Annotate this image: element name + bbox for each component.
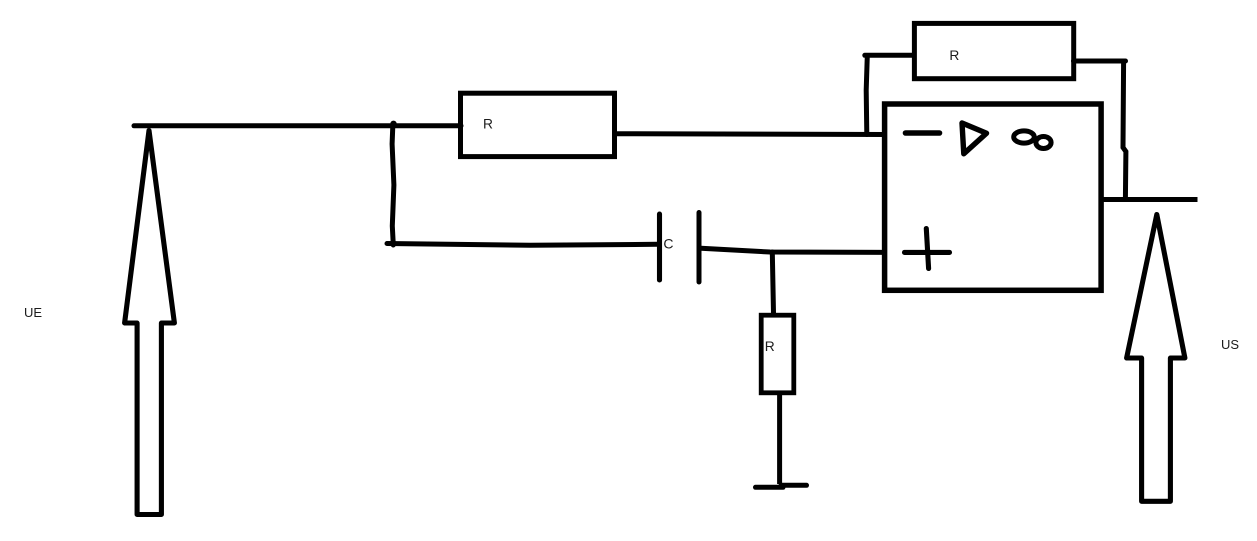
UE label	[24, 305, 42, 320]
wire from R1 to op-amp inverting input	[615, 131, 886, 137]
op-amp non-inverting input symbol (plus)	[905, 229, 950, 269]
wire vertical from capacitor output node down to R3	[772, 252, 773, 313]
node A junction of input wire and capacitor branch	[390, 121, 396, 127]
wire output from op-amp to the right	[1101, 197, 1198, 202]
UE source arrow (input voltage, pointing up)	[125, 131, 175, 515]
infinity symbol (ideal op-amp)	[1014, 131, 1051, 149]
wire feedback left vertical (inverting node up)	[866, 56, 867, 135]
svg-text:R: R	[483, 117, 493, 132]
wire input top horizontal from UE to R1	[134, 123, 461, 128]
svg-text:R: R	[765, 339, 775, 354]
op-amp triangle symbol	[962, 123, 987, 154]
resistor R3 (to ground)	[761, 315, 794, 393]
svg-text:C: C	[663, 236, 673, 252]
wire from C right plate to op-amp non-inverting input	[701, 248, 886, 252]
wire feedback top-right horizontal from R2	[1074, 59, 1126, 64]
svg-text:US: US	[1221, 337, 1239, 352]
US source arrow (output voltage, pointing up)	[1127, 215, 1185, 502]
wire junction vertical down to capacitor branch	[392, 126, 394, 245]
resistor R2 (feedback resistor)	[914, 23, 1073, 78]
wire feedback right vertical down to output node	[1123, 61, 1126, 200]
US label	[1221, 337, 1239, 352]
svg-text:R: R	[949, 48, 959, 63]
ground	[756, 485, 807, 487]
capacitor C	[660, 213, 700, 283]
wire from R3 down to ground	[777, 395, 782, 484]
op-amp inverting input symbol (minus)	[906, 130, 940, 136]
svg-text:UE: UE	[24, 305, 42, 320]
wire feedback top-left horizontal to R2	[865, 53, 913, 58]
wire capacitor branch horizontal to C left plate	[387, 244, 658, 246]
op-amp U1 body	[885, 104, 1102, 290]
resistor R1 (input series resistor)	[461, 93, 615, 156]
